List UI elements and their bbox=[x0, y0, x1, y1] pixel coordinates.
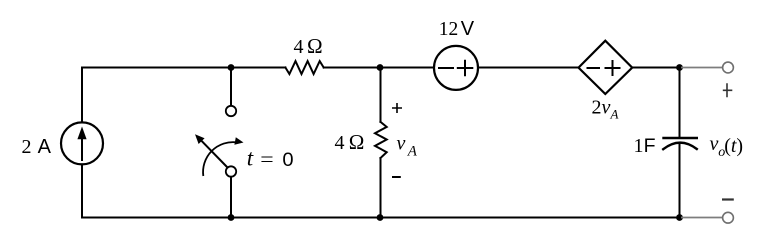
svg-text:12: 12 bbox=[439, 19, 459, 40]
wire resistor to 12V source bbox=[324, 67, 434, 69]
switch SW1 arc arrowhead bbox=[234, 137, 243, 145]
U1 minus sign bbox=[588, 67, 600, 69]
svg-text:2: 2 bbox=[22, 136, 32, 158]
wire right branch lower bbox=[679, 143, 681, 218]
I1 arrowhead bbox=[77, 127, 86, 140]
svg-text:1: 1 bbox=[634, 135, 644, 157]
wire right branch upper bbox=[679, 68, 681, 139]
resistor R2 4ohm vertical zigzag bbox=[375, 122, 387, 158]
wire switch branch upper bbox=[230, 68, 232, 106]
capacitor C1 top plate bbox=[664, 137, 697, 139]
output minus mark bbox=[722, 198, 734, 200]
svg-text:V: V bbox=[461, 18, 475, 40]
switch SW1 pivot circle bbox=[226, 166, 236, 176]
svg-text:Ω: Ω bbox=[349, 130, 365, 154]
svg-text:A: A bbox=[610, 107, 619, 122]
node A junction dot top switch bbox=[228, 64, 235, 71]
node B junction dot top middle bbox=[377, 64, 384, 71]
switch SW1 blade arrowhead bbox=[195, 134, 205, 144]
svg-text:4: 4 bbox=[335, 132, 345, 154]
output plus mark bbox=[723, 83, 733, 97]
wire to top output terminal bbox=[681, 67, 722, 69]
wire diamond to node C bbox=[632, 67, 679, 69]
svg-text:4: 4 bbox=[294, 36, 304, 58]
bottom output terminal bbox=[723, 212, 734, 223]
svg-text:v: v bbox=[397, 133, 406, 155]
vA minus mark bbox=[392, 176, 401, 178]
capacitor C1 curved plate bbox=[663, 143, 697, 150]
switch SW1 top contact circle bbox=[226, 106, 236, 116]
U1 plus sign bbox=[606, 61, 620, 75]
wire left rail upper bbox=[81, 68, 83, 123]
V1 plus sign bbox=[458, 61, 473, 75]
V1 minus sign bbox=[439, 67, 453, 69]
svg-text:=: = bbox=[260, 147, 273, 171]
svg-text:v: v bbox=[710, 133, 719, 155]
wire bottom rail bbox=[82, 217, 680, 219]
svg-text:(t): (t) bbox=[724, 135, 743, 157]
node C junction dot top right bbox=[676, 64, 683, 71]
wire to bottom output terminal bbox=[681, 217, 723, 219]
svg-text:0: 0 bbox=[282, 149, 293, 171]
wire middle branch lower bbox=[380, 158, 382, 218]
switch SW1 motion arc bbox=[203, 142, 236, 176]
svg-text:t: t bbox=[247, 146, 254, 171]
wire 12V source to diamond bbox=[478, 67, 579, 69]
svg-text:F: F bbox=[644, 135, 656, 157]
node D junction dot bottom switch bbox=[228, 214, 235, 221]
wire switch branch lower bbox=[230, 177, 232, 218]
vA plus mark bbox=[392, 103, 402, 113]
resistor R1 4ohm horizontal zigzag bbox=[285, 61, 323, 74]
svg-text:Ω: Ω bbox=[307, 34, 323, 58]
wire middle branch upper bbox=[380, 68, 382, 122]
wire left rail lower bbox=[81, 164, 83, 217]
wire top rail left segment bbox=[82, 67, 285, 69]
dependent source U1 diamond 2vA bbox=[579, 41, 633, 94]
svg-text:2v: 2v bbox=[592, 97, 611, 119]
current source I1 2A circle bbox=[61, 122, 103, 164]
I1 arrow shaft bbox=[81, 137, 83, 160]
voltage source V1 12V circle bbox=[434, 46, 478, 90]
svg-text:A: A bbox=[407, 144, 418, 160]
node E junction dot bottom middle bbox=[377, 214, 384, 221]
node F junction dot bottom right bbox=[676, 214, 683, 221]
svg-text:A: A bbox=[38, 136, 52, 158]
top output terminal bbox=[723, 62, 734, 73]
switch SW1 blade bbox=[202, 141, 228, 168]
